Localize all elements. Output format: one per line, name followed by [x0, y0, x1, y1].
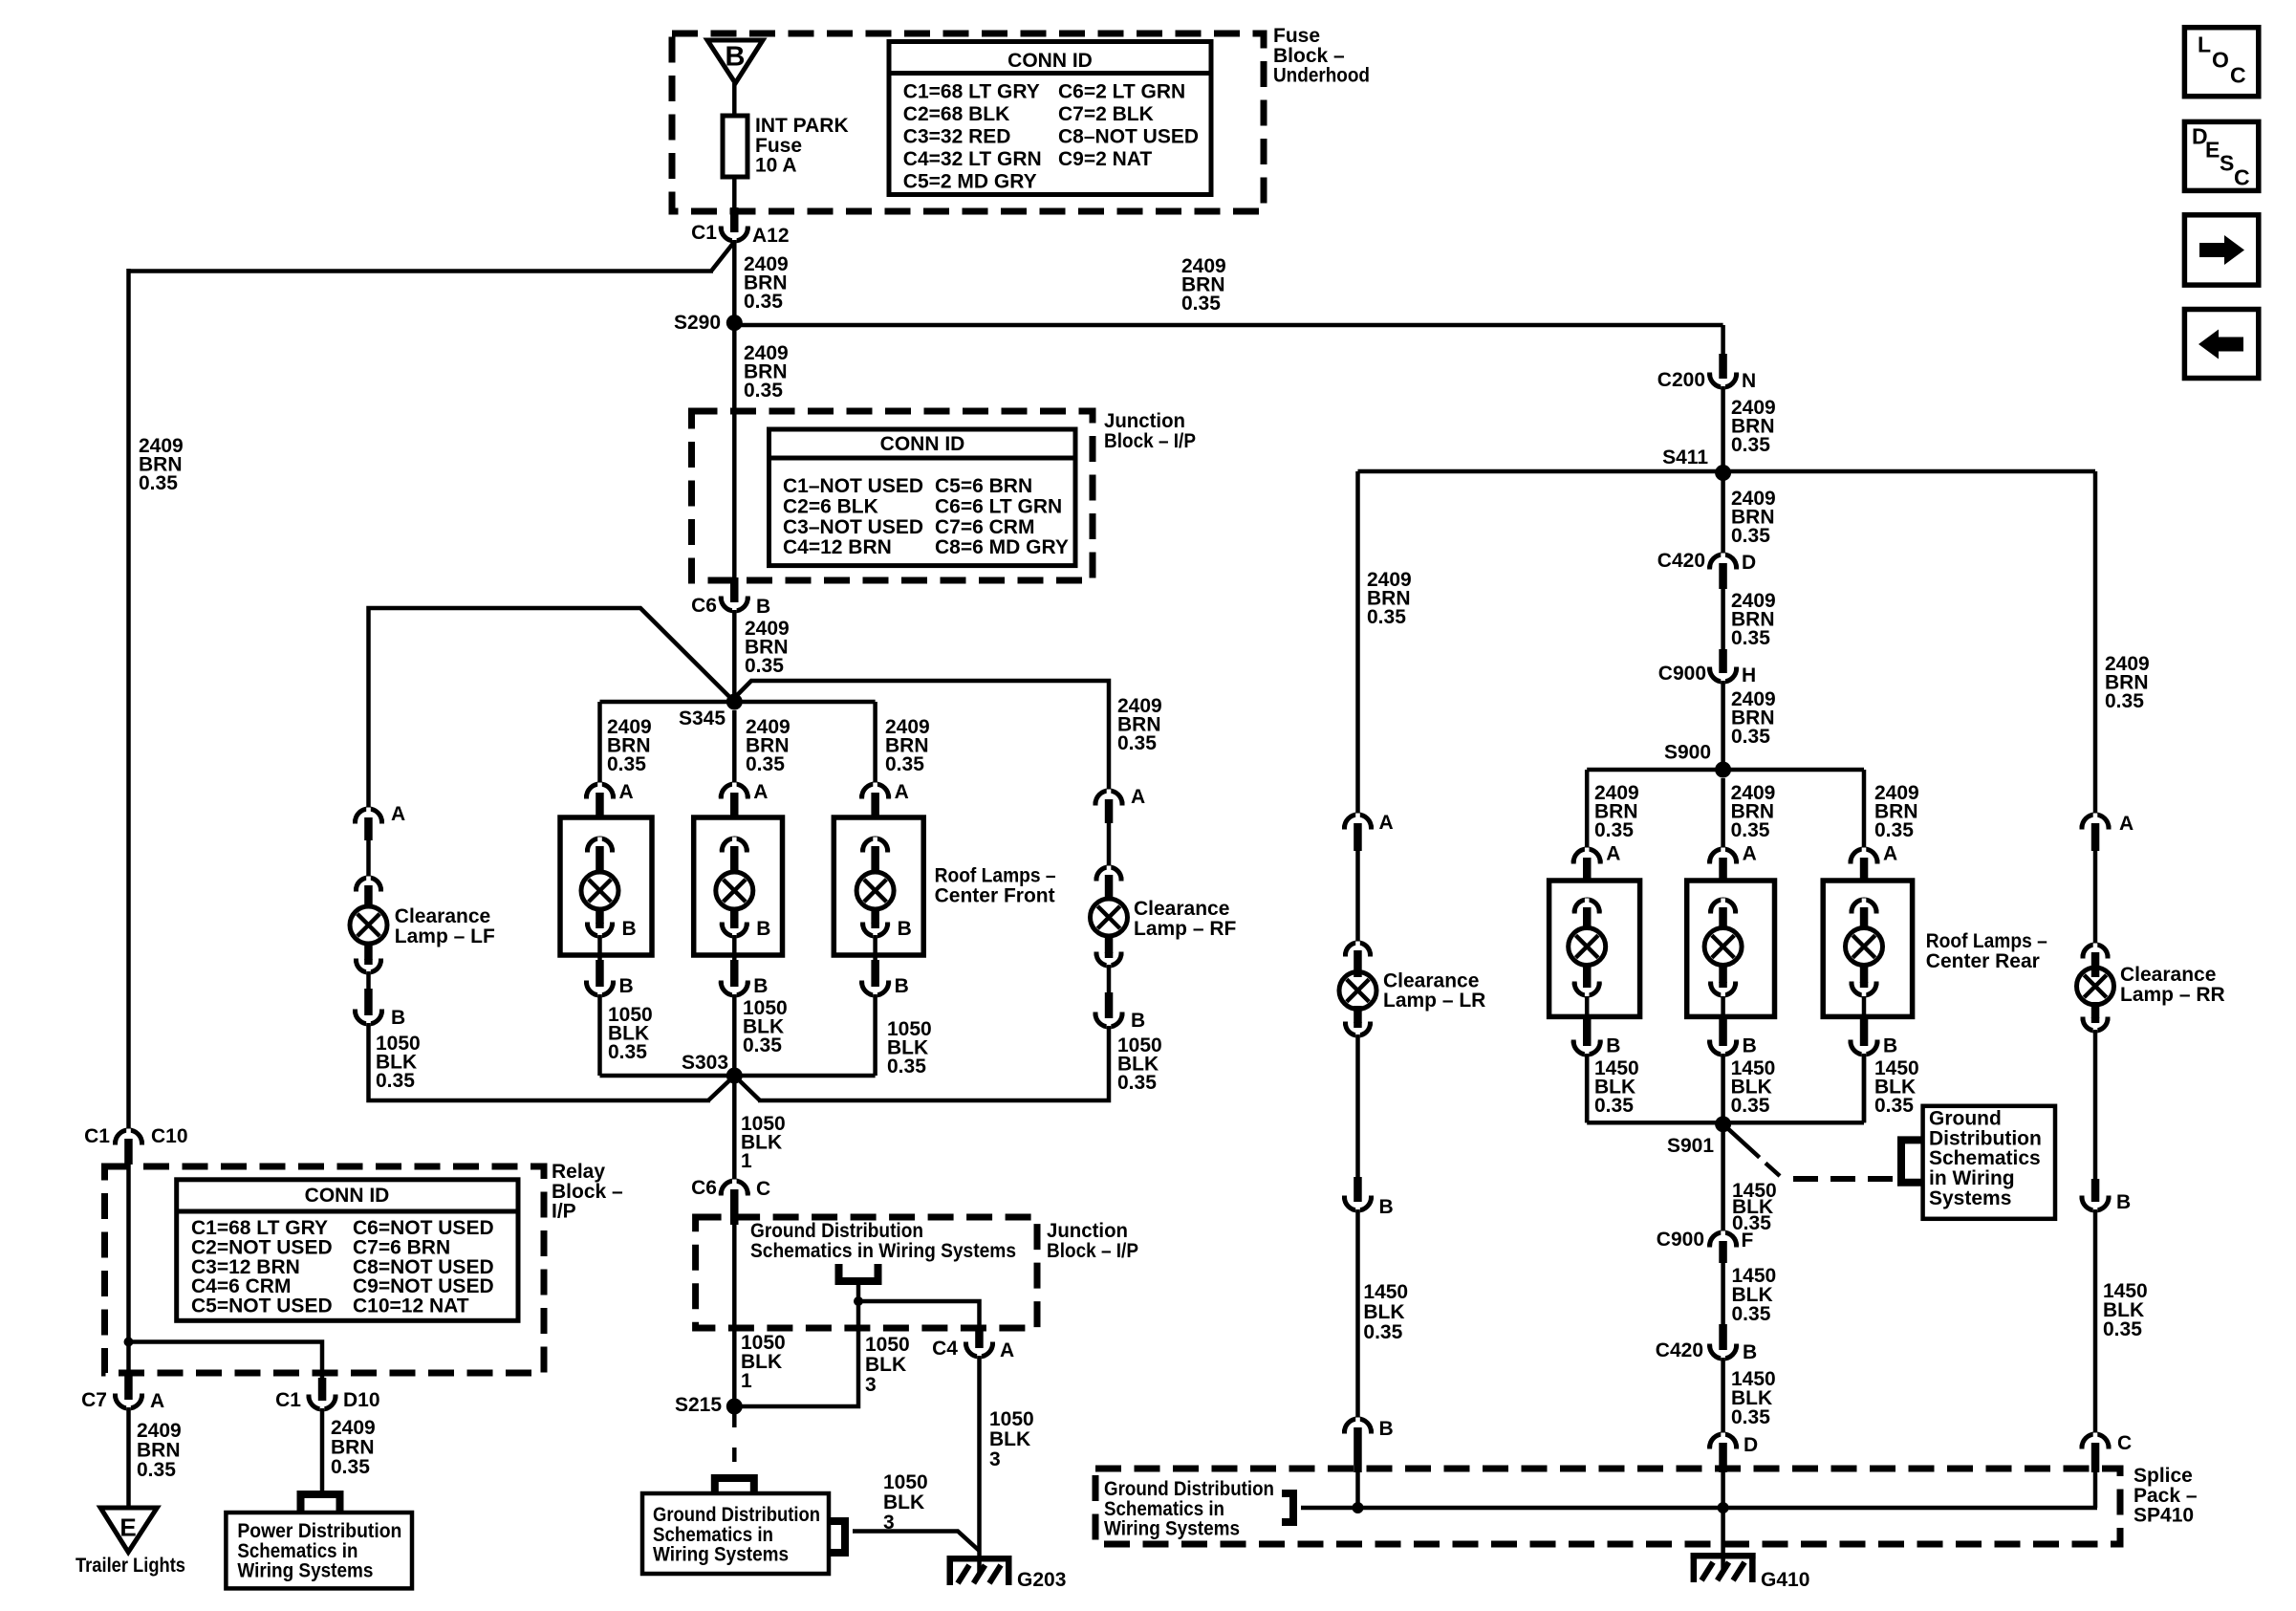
svg-text:Wiring Systems: Wiring Systems: [653, 1544, 789, 1566]
svg-text:C3=32 RED: C3=32 RED: [903, 125, 1011, 147]
svg-text:S345: S345: [679, 708, 726, 729]
svg-text:0.35: 0.35: [1731, 434, 1770, 456]
svg-text:0.35: 0.35: [1874, 1095, 1914, 1117]
connector C6 pin B: [730, 577, 739, 597]
svg-text:A: A: [753, 781, 768, 803]
svg-text:C5=NOT USED: C5=NOT USED: [191, 1295, 333, 1317]
roof lamp front-3 connector A: [862, 784, 889, 797]
roof lamp rear-1 ground wire: [1585, 1054, 1590, 1122]
svg-text:C: C: [2230, 62, 2246, 87]
svg-text:Lamp – LF: Lamp – LF: [395, 925, 495, 947]
junction block I/P dashed box (upper): [692, 411, 1094, 580]
roof lamp rear-2 connector B: [1719, 1019, 1727, 1040]
clearance lamp LR connector B: [1354, 1177, 1362, 1196]
S411 crossbar to LR and RR: [1358, 469, 2096, 474]
roof lamp front-1 socket top: [588, 838, 613, 851]
roof lamp front-2 bulb: [716, 872, 753, 909]
svg-text:0.35: 0.35: [2105, 690, 2144, 712]
svg-text:BLK: BLK: [865, 1354, 906, 1376]
svg-text:0.35: 0.35: [139, 472, 178, 494]
svg-text:Trailer Lights: Trailer Lights: [76, 1555, 185, 1577]
wire top-right corner down: [1721, 325, 1725, 356]
svg-text:Schematics: Schematics: [1929, 1147, 2041, 1169]
svg-text:L: L: [2198, 32, 2211, 56]
clearance lamp LR socket top: [1346, 943, 1371, 955]
svg-text:0.35: 0.35: [1731, 627, 1770, 649]
svg-text:B: B: [619, 975, 634, 997]
wire D10 down to power distribution: [320, 1408, 325, 1493]
svg-text:C4: C4: [932, 1338, 958, 1360]
wire LR to splice bus: [1355, 1472, 1360, 1508]
svg-text:Splice: Splice: [2134, 1465, 2193, 1487]
junction block I/P dashed box (lower): [696, 1217, 1037, 1328]
roof lamp rear-2 socket bottom: [1719, 966, 1727, 983]
svg-text:Lamp – LR: Lamp – LR: [1383, 990, 1485, 1012]
clearance lamp LF connector B: [364, 989, 373, 1010]
dashed continuation below S215: [732, 1414, 737, 1427]
svg-text:S290: S290: [674, 312, 721, 334]
svg-text:A: A: [1606, 843, 1620, 865]
svg-text:0.35: 0.35: [1117, 732, 1157, 754]
svg-text:C5=6 BRN: C5=6 BRN: [935, 475, 1032, 497]
schematic continuation staple (junction block): [839, 1264, 878, 1281]
left vertical wire 2409 BRN: [126, 269, 131, 1130]
schematic continuation staple (ground distribution): [715, 1478, 754, 1493]
clearance lamp RR socket top: [2083, 945, 2108, 957]
svg-text:Relay: Relay: [552, 1161, 605, 1183]
svg-text:C5=2 MD GRY: C5=2 MD GRY: [903, 170, 1037, 192]
roof lamp front-1 bulb: [581, 872, 618, 909]
roof lamp rear-2 connector A: [1710, 849, 1737, 862]
rear roof lamp collector (top): [1587, 768, 1864, 773]
bracket to G203 wire: [829, 1521, 845, 1553]
roof lamp front-2 connector B: [730, 960, 739, 981]
relay block node: [124, 1338, 134, 1347]
svg-text:S: S: [2220, 150, 2234, 175]
roof lamp rear-1 housing: [1549, 881, 1640, 1016]
power distribution box: [226, 1513, 412, 1588]
clearance lamp LR wire 3: [1355, 1209, 1360, 1419]
svg-text:0.35: 0.35: [744, 291, 783, 313]
ground G410: [1691, 1553, 1756, 1582]
splice S900: [1715, 762, 1731, 778]
roof lamp front-2 socket bottom: [730, 909, 739, 924]
svg-text:Ground: Ground: [1929, 1108, 2002, 1130]
S303 right diagonal: [737, 1078, 760, 1100]
svg-text:C: C: [756, 1178, 770, 1200]
svg-text:C1: C1: [275, 1389, 301, 1411]
svg-text:B: B: [391, 1007, 405, 1029]
svg-text:C8–NOT USED: C8–NOT USED: [1058, 125, 1199, 147]
svg-text:H: H: [1742, 664, 1756, 686]
svg-text:O: O: [2212, 47, 2229, 72]
svg-text:B: B: [756, 596, 770, 618]
svg-text:C420: C420: [1656, 1339, 1703, 1361]
drop to roof lamp 2: [732, 710, 737, 784]
svg-text:A12: A12: [752, 225, 790, 247]
splice S303: [600, 1074, 876, 1078]
wire A12 to S290: [732, 240, 737, 323]
svg-text:0.35: 0.35: [1731, 819, 1770, 841]
svg-text:1: 1: [741, 1150, 752, 1172]
svg-text:0.35: 0.35: [744, 380, 783, 402]
svg-text:0.35: 0.35: [137, 1459, 176, 1481]
clearance lamp LR socket bottom: [1354, 1006, 1362, 1023]
clearance lamp RR wire 2: [2093, 1030, 2098, 1179]
svg-text:Power Distribution: Power Distribution: [237, 1520, 401, 1542]
svg-text:0.35: 0.35: [608, 1041, 647, 1063]
svg-text:Junction: Junction: [1047, 1220, 1128, 1242]
S901 dashed reference to ground distribution: [1723, 1124, 1760, 1158]
drop to rear lamp 1: [1585, 770, 1590, 849]
svg-text:C6=6 LT GRN: C6=6 LT GRN: [935, 495, 1062, 517]
drop to rear lamp 3: [1862, 770, 1867, 849]
svg-text:0.35: 0.35: [607, 753, 646, 775]
svg-text:G203: G203: [1017, 1569, 1066, 1591]
CONN ID table (fuse block): [889, 42, 1211, 195]
svg-text:B: B: [753, 975, 768, 997]
roof lamp rear-3 inner wire: [1862, 996, 1867, 1019]
svg-text:B: B: [895, 975, 909, 997]
svg-text:E: E: [119, 1513, 136, 1542]
roof lamp rear-3 bulb: [1846, 928, 1883, 966]
svg-text:CONN ID: CONN ID: [1007, 50, 1093, 72]
svg-text:B: B: [1379, 1418, 1394, 1440]
branch to C1-D10: [129, 1342, 323, 1379]
svg-text:C1=68 LT GRY: C1=68 LT GRY: [903, 80, 1040, 102]
roof lamp rear-2 ground wire: [1721, 1054, 1725, 1122]
svg-text:Systems: Systems: [1929, 1187, 2011, 1209]
connector C1 pin D10: [318, 1378, 327, 1395]
splice bus node LR: [1353, 1502, 1364, 1513]
svg-text:Underhood: Underhood: [1273, 65, 1370, 87]
roof lamp rear-1 connector A: [1573, 849, 1600, 862]
svg-text:CONN ID: CONN ID: [880, 433, 965, 455]
connector C420 pin B: [1719, 1324, 1727, 1344]
clearance lamp RF ground wire: [758, 1026, 1109, 1100]
clearance lamp LF connector A: [356, 809, 382, 822]
roof lamp rear-3 socket bottom: [1860, 966, 1869, 983]
LOC button: [2184, 28, 2258, 97]
svg-text:0.35: 0.35: [1731, 726, 1770, 748]
svg-text:D: D: [1742, 552, 1756, 574]
roof lamp front-3 inner wire: [873, 935, 877, 960]
wire C900F to C420B: [1721, 1263, 1725, 1324]
clearance lamp RR connector B: [2091, 1179, 2100, 1196]
roof lamp front-1 housing: [560, 817, 652, 955]
roof lamp front-2 connector A: [721, 784, 747, 797]
svg-text:Block –: Block –: [552, 1181, 623, 1203]
roof lamp rear-3 ground wire: [1862, 1054, 1867, 1122]
svg-text:C7=6 CRM: C7=6 CRM: [935, 516, 1034, 538]
roof lamp front-3 ground wire: [873, 994, 877, 1076]
svg-text:Schematics in: Schematics in: [237, 1540, 357, 1562]
svg-text:0.35: 0.35: [2103, 1318, 2142, 1340]
RR branch wire: [2093, 471, 2098, 815]
wire C200 to S411: [1721, 386, 1725, 473]
ground distribution box (right): [1923, 1106, 2055, 1219]
svg-text:C10=12 NAT: C10=12 NAT: [353, 1295, 469, 1317]
wire to left run: [129, 269, 714, 273]
LR branch wire: [1355, 471, 1360, 815]
relay block I/P dashed box: [105, 1166, 545, 1373]
clearance lamp RR connector A: [2082, 815, 2109, 828]
wire node to C4 branch: [858, 1301, 980, 1328]
svg-text:A: A: [1131, 786, 1145, 808]
clearance lamp LF socket top: [357, 878, 381, 890]
forward arrow button: [2184, 215, 2258, 285]
svg-text:S215: S215: [675, 1394, 722, 1416]
svg-text:A: A: [1743, 843, 1757, 865]
svg-text:Schematics in: Schematics in: [653, 1524, 773, 1546]
roof lamp rear-2 bulb: [1704, 928, 1742, 966]
svg-text:C2=6 BLK: C2=6 BLK: [783, 495, 878, 517]
svg-text:C900: C900: [1658, 663, 1706, 685]
wire bracket to G203 column: [853, 1532, 980, 1552]
svg-text:INT PARK: INT PARK: [755, 115, 849, 137]
wire through relay block: [126, 1165, 131, 1342]
wire triangle to fuse: [732, 83, 737, 116]
clearance lamp LR bulb: [1339, 972, 1376, 1010]
svg-text:C900: C900: [1657, 1229, 1704, 1251]
svg-text:D10: D10: [343, 1389, 380, 1411]
clearance lamp LR wire 2: [1355, 1034, 1360, 1177]
branch to clearance lamp LF (diagonal+horizontal): [369, 608, 735, 808]
clearance lamp RF wire 2: [1107, 965, 1112, 992]
connector C4 pin A: [975, 1328, 983, 1342]
bracket to ground distribution box (right): [1901, 1140, 1923, 1182]
wire node down to S215 run: [734, 1301, 858, 1406]
svg-text:0.35: 0.35: [1874, 819, 1914, 841]
wire S901 down: [1721, 1124, 1725, 1232]
svg-text:F: F: [1742, 1230, 1754, 1252]
svg-text:0.35: 0.35: [376, 1070, 415, 1092]
svg-text:C: C: [2117, 1432, 2132, 1454]
clearance lamp RF wire: [1107, 823, 1112, 866]
roof lamp rear-3 housing: [1823, 881, 1912, 1016]
fuse block - underhood dashed box: [672, 33, 1264, 211]
svg-text:A: A: [619, 781, 634, 803]
roof lamp rear-2 socket top: [1711, 900, 1736, 912]
svg-text:C10: C10: [151, 1125, 188, 1147]
roof lamp front-2 inner wire: [732, 935, 737, 960]
svg-text:Ground Distribution: Ground Distribution: [653, 1504, 820, 1526]
wire C4 to G203: [977, 1356, 982, 1574]
svg-text:C6: C6: [691, 595, 717, 617]
svg-text:Block –: Block –: [1273, 45, 1345, 67]
svg-text:Pack –: Pack –: [2134, 1485, 2198, 1507]
svg-text:Distribution: Distribution: [1929, 1127, 2042, 1149]
svg-text:Fuse: Fuse: [755, 135, 802, 157]
roof lamp front-3 housing: [834, 817, 923, 955]
svg-text:A: A: [1379, 812, 1394, 834]
splice bus SP410: [1301, 1506, 2097, 1511]
svg-text:Clearance: Clearance: [1134, 898, 1229, 920]
drop to roof lamp 1: [597, 702, 602, 784]
svg-text:C1–NOT USED: C1–NOT USED: [783, 475, 923, 497]
wire C900 to S900: [1721, 681, 1725, 770]
wire RR to splice bus: [2093, 1472, 2098, 1508]
svg-text:Clearance: Clearance: [1383, 969, 1479, 991]
wire S411 down: [1721, 473, 1725, 555]
svg-text:B: B: [1606, 1035, 1620, 1057]
svg-text:S900: S900: [1664, 742, 1711, 764]
clearance lamp RF connector B: [1105, 992, 1114, 1012]
svg-text:Clearance: Clearance: [2120, 964, 2216, 986]
svg-text:0.35: 0.35: [745, 655, 784, 677]
clearance lamp RR socket bottom: [2091, 1002, 2100, 1018]
svg-text:1450: 1450: [1363, 1281, 1408, 1303]
svg-text:C9=2 NAT: C9=2 NAT: [1058, 148, 1152, 170]
svg-text:0.35: 0.35: [885, 753, 924, 775]
roof lamp front-3 socket bottom: [871, 909, 879, 924]
svg-text:Wiring Systems: Wiring Systems: [237, 1560, 373, 1582]
roof lamp collector (top): [600, 700, 876, 705]
svg-text:0.35: 0.35: [1594, 1095, 1634, 1117]
connector B to splice pack (LR): [1345, 1419, 1372, 1432]
clearance lamp RF socket top: [1096, 867, 1121, 880]
svg-text:BLK: BLK: [989, 1428, 1030, 1450]
roof lamp front-2 housing: [694, 817, 783, 955]
roof lamp front-1 socket bottom: [596, 909, 604, 924]
rear lamp1 drop to collector: [1585, 1057, 1590, 1122]
svg-text:C: C: [2234, 164, 2250, 189]
svg-text:A: A: [391, 803, 405, 825]
roof lamp front-2 ground wire: [732, 994, 737, 1076]
svg-text:C7: C7: [81, 1389, 107, 1411]
clearance lamp LF wire: [366, 840, 371, 877]
svg-text:1050: 1050: [865, 1334, 910, 1356]
svg-text:Center Rear: Center Rear: [1926, 950, 2040, 972]
clearance lamp LR wire: [1355, 851, 1360, 942]
svg-text:S901: S901: [1667, 1135, 1714, 1157]
svg-text:in Wiring: in Wiring: [1929, 1167, 2015, 1189]
svg-text:CONN ID: CONN ID: [305, 1185, 390, 1207]
svg-text:Ground Distribution: Ground Distribution: [1104, 1478, 1274, 1500]
svg-text:0.35: 0.35: [743, 1034, 782, 1056]
clearance lamp RF socket bottom: [1105, 936, 1114, 953]
ground G203: [947, 1556, 1012, 1585]
svg-text:Block – I/P: Block – I/P: [1104, 430, 1196, 452]
svg-text:A: A: [1883, 843, 1897, 865]
back arrow button: [2184, 310, 2258, 379]
svg-text:C6=2 LT GRN: C6=2 LT GRN: [1058, 80, 1185, 102]
svg-text:SP410: SP410: [2134, 1505, 2194, 1527]
bracket (splice pack): [1282, 1493, 1293, 1522]
wire C420B to D: [1721, 1358, 1725, 1434]
branch to clearance lamp RF (jog+horizontal): [732, 681, 1109, 791]
roof lamp rear-1 socket bottom: [1583, 966, 1592, 983]
rear lamp3 drop to collector: [1862, 1057, 1867, 1122]
splice pack SP410 dashed box: [1095, 1469, 2120, 1544]
svg-text:Lamp – RF: Lamp – RF: [1134, 918, 1237, 940]
svg-text:B: B: [756, 918, 770, 940]
svg-text:3: 3: [883, 1512, 895, 1534]
clearance lamp LF ground wire: [369, 1023, 711, 1100]
svg-text:0.35: 0.35: [1117, 1072, 1157, 1094]
connector C to splice pack (RR): [2082, 1434, 2109, 1448]
fuse INT PARK 10A: [723, 116, 747, 177]
svg-text:C4=32 LT GRN: C4=32 LT GRN: [903, 148, 1042, 170]
splice S290: [726, 315, 743, 331]
connector C7 pin A: [126, 1342, 131, 1378]
clearance lamp LF socket bottom: [364, 944, 373, 960]
svg-text:G410: G410: [1761, 1569, 1809, 1591]
wire C7A down to trailer lights: [126, 1407, 131, 1509]
roof lamp front-3 connector B: [871, 960, 879, 981]
svg-text:B: B: [1379, 1196, 1394, 1218]
svg-text:B: B: [1743, 1035, 1757, 1057]
svg-text:Roof Lamps –: Roof Lamps –: [1926, 930, 2047, 952]
S303 left diagonal: [708, 1078, 731, 1100]
svg-text:C1: C1: [691, 222, 717, 244]
svg-text:Wiring Systems: Wiring Systems: [1104, 1518, 1240, 1540]
svg-text:A: A: [1000, 1339, 1014, 1361]
svg-text:C3–NOT USED: C3–NOT USED: [783, 516, 923, 538]
svg-text:1050: 1050: [883, 1471, 928, 1493]
battery feed triangle B: [707, 40, 763, 83]
roof lamp rear-1 socket top: [1574, 900, 1599, 912]
svg-text:0.35: 0.35: [1731, 1095, 1770, 1117]
svg-text:C4=12 BRN: C4=12 BRN: [783, 536, 892, 558]
svg-text:A: A: [2119, 813, 2134, 835]
connector C900 pin H: [1719, 649, 1727, 667]
svg-text:Center Front: Center Front: [935, 884, 1055, 906]
svg-text:C1: C1: [84, 1125, 110, 1147]
clearance lamp RF connector A: [1095, 791, 1122, 804]
rear ground collector: [1587, 1121, 1864, 1125]
svg-text:0.35: 0.35: [1367, 606, 1406, 628]
wire D to splice bus: [1721, 1472, 1725, 1573]
svg-text:1: 1: [741, 1370, 752, 1392]
roof lamp rear-1 connector B: [1583, 1019, 1592, 1040]
svg-text:B: B: [2116, 1191, 2131, 1213]
roof lamp front-1 inner wire: [597, 935, 602, 960]
svg-text:0.35: 0.35: [1363, 1321, 1402, 1343]
wire S290 down to junction block: [732, 323, 737, 578]
connector C1 pin C10: [116, 1130, 142, 1143]
roof lamp front-3 bulb: [856, 872, 894, 909]
splice S215: [726, 1399, 743, 1415]
CONN ID table (junction block): [769, 429, 1076, 566]
wire S290 to right: [734, 323, 1722, 328]
splice S901: [1715, 1116, 1731, 1132]
svg-text:Lamp – RR: Lamp – RR: [2120, 984, 2225, 1006]
svg-text:B: B: [1883, 1035, 1897, 1057]
clearance lamp LF wire 2: [366, 971, 371, 989]
drop to rear lamp 2: [1721, 778, 1725, 849]
svg-text:0.35: 0.35: [1594, 819, 1634, 841]
wire S303 down: [732, 1076, 737, 1180]
trailer lights triangle E: [100, 1508, 157, 1552]
svg-text:S303: S303: [682, 1052, 728, 1074]
schematic continuation staple (power distribution): [301, 1494, 340, 1513]
svg-text:Schematics in: Schematics in: [1104, 1498, 1224, 1520]
connector C900 pin F: [1710, 1232, 1737, 1246]
wire fuse to connector C1: [732, 177, 737, 209]
svg-text:S411: S411: [1662, 446, 1708, 468]
svg-text:0.35: 0.35: [746, 753, 785, 775]
svg-text:BLK: BLK: [883, 1491, 924, 1513]
clearance lamp RF bulb: [1091, 899, 1128, 936]
roof lamp rear-2 housing: [1687, 881, 1775, 1016]
svg-text:Fuse: Fuse: [1273, 25, 1320, 47]
roof lamp rear-3 connector A: [1851, 849, 1877, 862]
roof lamp rear-1 inner wire: [1585, 996, 1590, 1019]
wire main through junction block: [732, 1225, 737, 1406]
svg-text:N: N: [1742, 370, 1756, 392]
svg-text:B: B: [898, 918, 912, 940]
